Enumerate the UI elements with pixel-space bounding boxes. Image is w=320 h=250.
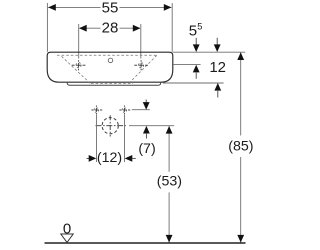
dimension (12) right arrow [125,155,133,162]
dimension 5.5 down arrow [195,38,197,45]
drain dashed circle (plan view) [102,118,118,134]
dimension 28 line [80,27,101,29]
svg-text:0: 0 [63,220,71,237]
dimension 55 extension line left [46,3,48,52]
tap hole cross right (front view) [134,60,148,70]
datum level triangle [61,234,73,242]
siphon cover strip under basin [67,82,161,85]
tap bench level line (5.5 below rim) [173,64,201,66]
svg-text:55: 55 [102,0,119,16]
tap hole cross left (front view) [72,60,86,70]
dimension 28 extension line right [140,24,142,59]
bowl dashed bottom line [91,83,133,85]
svg-text:5: 5 [189,22,197,39]
dimension 12 down arrow [216,38,218,45]
svg-text:5: 5 [197,22,202,32]
dimension (53) line [168,126,170,172]
dimension (85) down arrow [237,235,244,243]
inner rim dashed line [57,54,157,56]
dimension (53) down arrow [166,235,173,243]
basin bottom level line (12 below rim) [163,82,224,84]
svg-text:28: 28 [102,20,119,37]
svg-text:(85): (85) [228,139,253,155]
dimension (12) left arrow [87,157,91,159]
dimension 5.5 up arrow [193,65,200,73]
dimension 12 up arrow [214,83,221,91]
dimension 28 arrow left [79,25,87,32]
drain crosshair horizontal [96,125,126,127]
dimension 28 extension line left [78,24,80,59]
bowl dashed diagonal left [62,56,91,83]
dimension (85) up arrow [237,52,244,60]
dimension (12) extension line left [96,115,98,162]
tap hole cross right (plan view) [119,106,130,115]
floor line [45,242,246,244]
svg-text:(7): (7) [138,141,155,157]
dimension (12) extension line right [124,115,126,162]
dimension 55 extension line right [171,3,173,52]
bowl dashed diagonal right [129,55,157,83]
dimension 55 arrow left [48,4,56,11]
tap hole level line (plan) [132,109,150,111]
top level extension line to (85) [173,51,245,53]
dimension 28 arrow right [133,25,141,32]
dimension 55 arrow right [164,4,172,11]
dimension (85) line [240,53,242,136]
overflow hole circle [108,58,113,63]
basin outline front view [47,52,173,82]
svg-text:12: 12 [209,59,226,76]
dimension (53) up arrow [166,126,173,134]
drain level line (plan) [129,125,174,127]
dimension (7) down arrow [145,100,147,103]
dimension (7) up arrow [143,126,150,134]
svg-text:(53): (53) [157,174,182,190]
drain crosshair vertical [109,115,111,136]
tap hole cross left (plan view) [91,106,102,115]
svg-text:(12): (12) [97,150,122,166]
dimension 55 line [48,6,100,8]
